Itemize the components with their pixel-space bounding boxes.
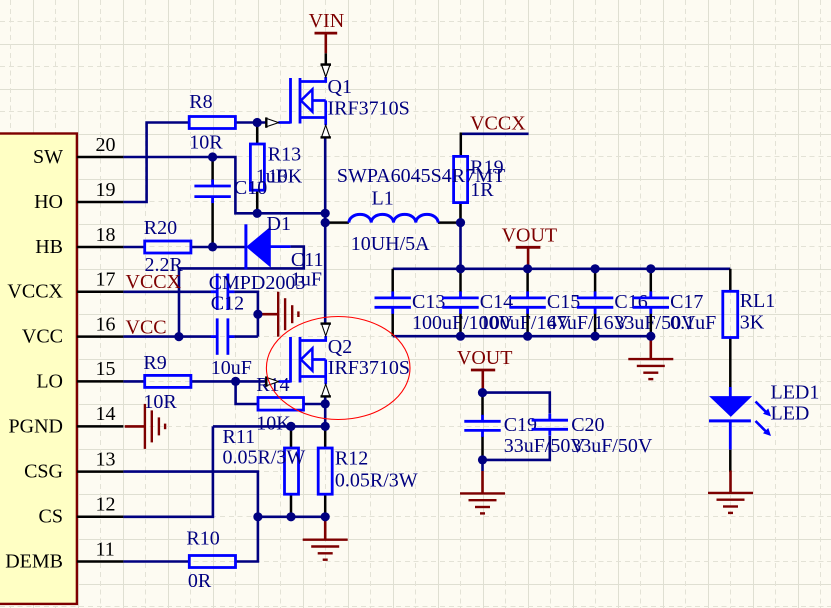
junction C16 top [591, 264, 600, 273]
capacitor C17 [650, 269, 653, 292]
svg-text:VIN: VIN [309, 10, 345, 32]
svg-text:IRF3710S: IRF3710S [328, 98, 410, 120]
wire R10 up to sense node [236, 517, 258, 562]
wire VOUT top rail [393, 267, 731, 270]
svg-text:LED: LED [771, 403, 810, 425]
svg-text:18: 18 [96, 224, 116, 246]
wire sense ground horizontal [258, 515, 325, 518]
wire Q1 source to Q2 drain column [324, 137, 327, 323]
svg-text:PGND: PGND [9, 415, 63, 437]
svg-text:DEMB: DEMB [5, 550, 63, 572]
svg-text:14: 14 [96, 403, 116, 425]
svg-text:R12: R12 [335, 448, 368, 470]
svg-text:IRF3710S: IRF3710S [328, 357, 410, 379]
wire DEMB pin11 to R10 [123, 560, 189, 563]
capacitor C20 [532, 419, 568, 422]
junction VOUT port / C15 top [523, 264, 532, 273]
transistor Q1 [289, 78, 292, 124]
wire VCCX net at R19 top [461, 133, 529, 136]
pin 18 HB [77, 246, 124, 249]
pin 20 SW [77, 156, 124, 159]
resistor RL1 [729, 269, 732, 292]
svg-text:12: 12 [96, 494, 116, 516]
resistor R12 [324, 426, 327, 448]
wire CS pin12 up [123, 426, 212, 516]
wire LO pin15 to R9 [123, 380, 144, 383]
ground at C11/C12 junction [258, 313, 278, 316]
IC block U? (part) [0, 134, 77, 604]
junction SW wire / C10 top [208, 152, 217, 161]
capacitor C11 [216, 274, 219, 310]
svg-text:L1: L1 [372, 187, 394, 209]
wire CS node horizontal [213, 425, 325, 428]
wire C19 C20 loop [483, 393, 550, 414]
wire R20 to D1 cathode [191, 246, 246, 249]
ground below R11 R12 [324, 517, 327, 540]
diode D1 [244, 224, 247, 269]
inductor L1 [325, 221, 349, 224]
svg-text:C19: C19 [504, 414, 537, 436]
svg-text:33uF/50V: 33uF/50V [571, 435, 653, 457]
wire CSG pin13 down [123, 472, 258, 517]
capacitor C13 [391, 269, 394, 292]
transistor Q2 [289, 337, 292, 383]
pin 11 DEMB [77, 560, 124, 563]
svg-text:D1: D1 [267, 213, 291, 235]
ground below C17 [649, 336, 652, 359]
capacitor C10 [211, 157, 214, 182]
junction C19 bottom / ground [478, 455, 487, 464]
wire D1 anode to VCC rail [179, 247, 304, 337]
wire L1 node down to VOUT rail [459, 223, 462, 269]
resistor R11 [290, 426, 293, 448]
pin 14 PGND [77, 425, 124, 428]
svg-text:19: 19 [96, 179, 116, 201]
wire gate node down to R14 [236, 381, 258, 404]
capacitor C16 [594, 269, 597, 292]
svg-text:CS: CS [39, 506, 63, 528]
wire SW pin20 to switch node [123, 157, 257, 213]
svg-text:20: 20 [96, 134, 116, 156]
pin 19 HO [77, 201, 124, 204]
svg-text:10R: 10R [143, 391, 177, 413]
junction switch node on Q1 source column [321, 209, 330, 218]
wire switch node horizontal [257, 212, 325, 215]
pin 13 CSG [77, 470, 124, 473]
svg-text:0.1uF: 0.1uF [670, 312, 716, 334]
svg-text:15: 15 [96, 358, 116, 380]
pin 12 CS [77, 516, 124, 519]
junction R11 top [286, 422, 295, 431]
pin 15 LO [77, 380, 124, 383]
svg-text:16: 16 [96, 313, 116, 335]
ground at PGND pin14 [125, 425, 145, 428]
wire C12 to gnd junction [234, 335, 258, 338]
junction L1 right / R19 bottom [456, 218, 465, 227]
svg-text:13: 13 [96, 448, 116, 470]
wire C11 to gnd junction [234, 292, 258, 337]
svg-text:C13: C13 [412, 291, 445, 313]
wire VCCX pin17 to C11 [123, 290, 211, 293]
wire VOUT bottom rail [393, 335, 651, 338]
junction VOUT rail / C14 top [456, 264, 465, 273]
svg-text:HB: HB [35, 236, 63, 258]
svg-text:SWPA6045S4R7MT: SWPA6045S4R7MT [337, 165, 505, 187]
junction VCC / D1 anode branch [174, 332, 183, 341]
svg-text:LED1: LED1 [771, 382, 820, 404]
wire R9 to Q2 gate [191, 380, 267, 383]
junction CSG / R10 branch [253, 512, 262, 521]
svg-text:10K: 10K [256, 413, 291, 435]
wire HB pin18 to R20 [123, 246, 144, 249]
svg-text:LO: LO [36, 370, 63, 392]
junction VOUT port / C19 top [478, 388, 487, 397]
junction L1 left [321, 218, 330, 227]
svg-text:10uF: 10uF [211, 357, 252, 379]
svg-text:CSG: CSG [24, 461, 63, 483]
svg-text:CMPD2003: CMPD2003 [209, 272, 306, 294]
resistor R14 [258, 398, 304, 411]
junction R8 / R13 / Q1 gate [253, 118, 262, 127]
wire HO pin19 up to R8 [123, 123, 189, 203]
wire VCC pin16 to C12 [123, 335, 211, 338]
resistor R9 [145, 375, 191, 387]
svg-text:HO: HO [34, 191, 63, 213]
svg-text:C11: C11 [291, 249, 324, 271]
capacitor C12 [216, 318, 219, 354]
svg-text:17: 17 [96, 269, 116, 291]
svg-text:C16: C16 [614, 291, 647, 313]
svg-text:10UH/5A: 10UH/5A [351, 233, 430, 255]
capacitor C15 [526, 269, 529, 292]
svg-text:R14: R14 [256, 374, 289, 396]
LED LED1 [729, 387, 732, 397]
svg-text:C20: C20 [571, 414, 604, 436]
svg-text:0.05R/3W: 0.05R/3W [335, 470, 418, 492]
svg-text:10R: 10R [189, 132, 223, 154]
LED1 emission arrows [756, 402, 768, 414]
wire R14 to Q2 source [304, 403, 326, 406]
resistor R10 [189, 556, 235, 568]
ground below C19 [481, 460, 484, 471]
svg-text:R13: R13 [268, 144, 301, 166]
svg-text:C12: C12 [211, 292, 244, 314]
junction C11 C12 midpoint / ground [253, 310, 262, 319]
svg-text:VCCX: VCCX [126, 271, 182, 293]
junction R11 bottom [286, 512, 295, 521]
wire Q2 source down to CS node [324, 396, 327, 427]
resistor R20 [145, 241, 191, 253]
svg-text:R20: R20 [144, 217, 177, 239]
svg-text:R8: R8 [189, 91, 212, 113]
svg-text:RL1: RL1 [740, 290, 776, 312]
junction R20 / C10 bottom / D1 [208, 242, 217, 251]
svg-text:VCCX: VCCX [7, 281, 63, 303]
junction R12 bottom / sense ground [321, 512, 330, 521]
junction R12 top / CS wire [321, 422, 330, 431]
resistor R8 [189, 117, 235, 129]
junction C14 bottom [456, 332, 465, 341]
svg-text:C10: C10 [234, 177, 267, 199]
svg-text:VOUT: VOUT [502, 225, 558, 247]
pin 17 VCCX [77, 291, 124, 294]
pin 16 VCC [77, 335, 124, 338]
junction R9 / Q2 gate / R14 branch [231, 377, 240, 386]
highlight ellipse around Q2 [266, 317, 410, 420]
ground below LED1 [729, 471, 732, 493]
resistor R19 [454, 156, 468, 202]
svg-text:0.05R/3W: 0.05R/3W [223, 446, 306, 468]
svg-text:VCC: VCC [22, 326, 63, 348]
junction C16 bottom [591, 332, 600, 341]
svg-text:C17: C17 [670, 291, 703, 313]
capacitor C14 [459, 269, 462, 292]
junction C17 bottom / ground [646, 332, 655, 341]
junction C15 bottom [523, 332, 532, 341]
svg-text:Q2: Q2 [328, 336, 352, 358]
svg-text:C15: C15 [547, 291, 580, 313]
svg-text:R11: R11 [223, 426, 256, 448]
svg-text:Q1: Q1 [328, 76, 352, 98]
junction Q2 source / R14 right [321, 399, 330, 408]
svg-text:11: 11 [96, 538, 115, 560]
svg-text:SW: SW [33, 146, 63, 168]
wire R8 to Q1 gate [236, 121, 268, 124]
svg-text:VCC: VCC [126, 316, 167, 338]
svg-text:R9: R9 [143, 352, 166, 374]
svg-text:3K: 3K [740, 311, 765, 333]
svg-text:VCCX: VCCX [470, 112, 526, 134]
junction C17 top [646, 264, 655, 273]
svg-text:0R: 0R [188, 570, 212, 592]
wire R19 bottom to L1 node [459, 202, 462, 223]
svg-text:C14: C14 [480, 291, 513, 313]
resistor R13 [256, 123, 259, 145]
junction R13 bottom / SW branch [253, 209, 262, 218]
capacitor C19 [481, 393, 484, 416]
svg-text:VOUT: VOUT [457, 347, 513, 369]
svg-text:R10: R10 [186, 527, 219, 549]
